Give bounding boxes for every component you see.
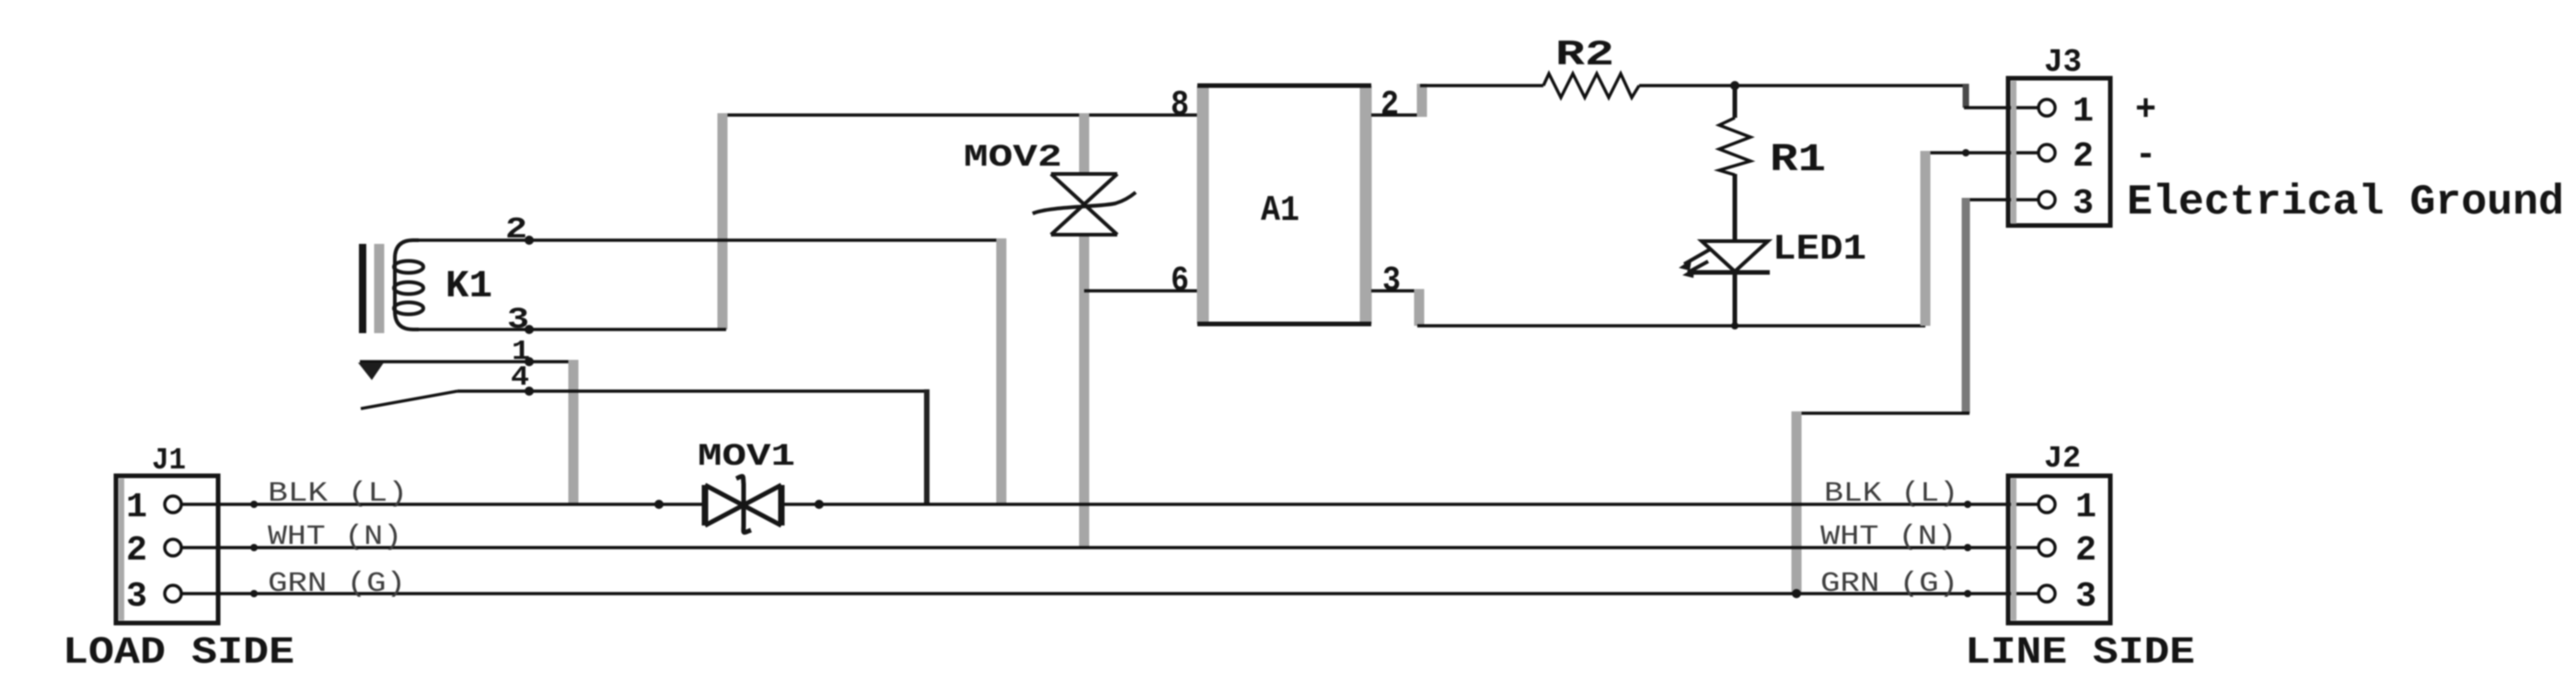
varistor MOV2 [1033,174,1136,235]
resistor R2 [1543,74,1639,98]
svg-text:MOV2: MOV2 [964,141,1062,176]
pin circle J3-3 [2039,191,2055,208]
svg-text:MOV1: MOV1 [698,440,795,475]
wire A1 pin 3 stub [1371,289,1421,292]
svg-text:1: 1 [126,488,147,527]
wire K1 pin 2 horizontal [416,238,1005,241]
junction dot K1 pin3 [525,325,534,334]
junction dot GRN near J1 [250,590,258,597]
wire top bus from K1 pin3 riser to A1 pin 8 [719,113,1200,116]
wire riser x=1088 (K1 pin2 down to BLK line) [997,238,1007,504]
resistor R1 [1719,118,1750,175]
connector J3 left inner shade [2011,81,2016,224]
connector J3 box [2008,78,2110,225]
svg-text:J1: J1 [152,444,186,478]
pin circle J2-3 [2039,585,2055,602]
svg-text:1: 1 [2073,92,2094,132]
LED LED1 [1684,241,1770,272]
svg-text:R2: R2 [1555,35,1614,75]
wire BLK line right segment [780,502,2039,505]
wire bottom return line (A1 pin3 to J3 pin2 riser) [1417,324,1925,327]
pin circle J3-2 [2039,144,2055,161]
pin circle J1-2 [165,539,181,556]
svg-text:+: + [2135,90,2156,132]
wire jog up x=1545 to R2 line [1417,84,1427,117]
wire drop x=1007 (K1 pin4 down to BLK line) [924,389,930,504]
junction dot LED bottom [1731,322,1739,329]
junction dot BLK near J2 [1964,501,1971,508]
IC A1 box [1197,86,1371,324]
svg-text:3: 3 [126,577,147,617]
svg-text:3: 3 [2075,577,2097,617]
pin circle J1-3 [165,585,181,602]
wire A1 pin 2 stub [1371,113,1424,116]
svg-text:R1: R1 [1770,137,1826,182]
wire BLK line left segment [182,502,707,505]
wire GRN line [182,592,2039,595]
wire ground run horizontal y=449 [1796,411,1970,414]
wire J3 pin 1 lead [1964,106,2039,109]
junction dot BLK near J1 [250,501,258,508]
wire R2 top line [1420,84,1543,87]
wire jog down x=2136 (R2 line to J3 pin1) [1963,84,1970,108]
svg-text:Electrical Ground: Electrical Ground [2127,179,2564,226]
wire WHT line [182,546,2039,549]
wire drop x=2136 (J3 pin3 down to ground run) [1962,198,1970,413]
connector J1 left inner shade [119,479,124,620]
svg-text:WHT (N): WHT (N) [268,521,402,553]
wire MOV2 / A1 pin6 riser x=1178 (top bus to WHT line) [1080,113,1090,174]
junction dot WHT near J1 [250,544,258,551]
svg-text:A1: A1 [1261,191,1300,231]
junction dot K1 pin4 [525,387,534,396]
junction dot K1 pin2 [525,236,534,245]
svg-text:J3: J3 [2044,44,2082,81]
junction dot MOV1 left [654,500,664,509]
svg-text:3: 3 [1382,261,1401,301]
pin circle J2-1 [2039,496,2055,513]
junction dot MOV1 right [814,500,824,509]
wire riser x=623 (K1 pin1 down to BLK line) [569,360,579,504]
wire jog down x=1542 to bottom return line [1415,289,1425,326]
junction crossing dot on J3 pin2 lead [1962,149,1970,156]
relay switch blade K1 [361,391,457,409]
svg-text:BLK (L): BLK (L) [268,478,408,510]
varistor MOV1 [705,477,781,533]
svg-text:J2: J2 [2044,442,2081,476]
relay core bar black [359,244,366,333]
svg-text:3: 3 [2073,184,2094,224]
wire riser x=1952 (ground run down to GRN line) [1792,411,1802,594]
svg-text:2: 2 [126,531,147,571]
svg-text:6: 6 [1171,261,1189,301]
svg-text:8: 8 [1171,86,1189,125]
svg-text:BLK (L): BLK (L) [1824,478,1958,510]
wire riser x=785 (K1 pin3 to top bus) [718,113,728,329]
relay coil K1 [394,240,423,329]
relay core bar gray [375,244,385,333]
wire K1 pin 3 horizontal [416,328,726,330]
junction dot K1 pin1 [525,357,534,366]
junction dot ground riser on GRN [1792,589,1801,598]
svg-text:WHT (N): WHT (N) [1820,521,1957,553]
wire A1 pin 6 horizontal [1084,289,1200,292]
wire J3 pin 3 lead [1966,198,2039,201]
wire K1 pin 4 horizontal [457,389,929,392]
svg-text:2: 2 [2075,531,2097,571]
svg-text:2: 2 [505,213,527,247]
svg-text:GRN (G): GRN (G) [268,568,406,600]
svg-text:LED1: LED1 [1773,229,1866,270]
connector J2 box [2008,476,2110,623]
junction dot GRN near J2 [1964,590,1971,597]
connector J1 box [116,476,218,623]
connector J2 left inner shade [2011,479,2016,620]
wire J3 pin 2 lead [1925,151,2039,154]
svg-text:K1: K1 [445,264,492,308]
svg-text:GRN (G): GRN (G) [1820,568,1958,600]
pin circle J2-2 [2039,539,2055,556]
svg-text:LINE SIDE: LINE SIDE [1965,630,2195,675]
relay switch arrow contact [358,363,384,380]
pin circle J1-1 [165,496,181,513]
svg-text:2: 2 [2073,137,2094,177]
wire K1 pin 1 horizontal [360,360,577,363]
svg-text:LOAD SIDE: LOAD SIDE [63,630,295,675]
svg-text:2: 2 [1380,86,1399,125]
svg-text:1: 1 [2075,488,2097,527]
junction dot R2/R1 node [1730,81,1739,90]
svg-text:-: - [2135,135,2156,177]
wire riser x=2092 (J3 pin2 down to bottom return) [1921,151,1931,326]
junction dot WHT near J2 [1964,544,1971,551]
pin circle J3-1 [2039,99,2055,116]
wire R1/LED stem [1733,86,1738,118]
